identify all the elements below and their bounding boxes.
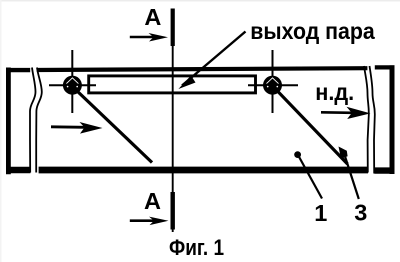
svg-text:3: 3 [354, 200, 367, 226]
svg-text:A: A [144, 188, 161, 214]
svg-text:выход пара: выход пара [250, 18, 375, 44]
svg-text:A: A [144, 4, 161, 30]
svg-text:1: 1 [314, 200, 327, 226]
svg-text:Фиг. 1: Фиг. 1 [169, 235, 224, 260]
svg-text:н.д.: н.д. [315, 79, 354, 105]
